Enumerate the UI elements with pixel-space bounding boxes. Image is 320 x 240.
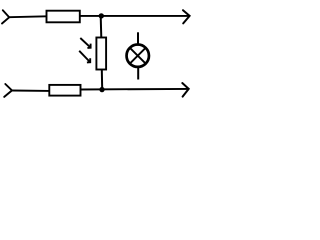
junction dot top: [99, 13, 104, 18]
wire top rail right segment: [80, 15, 189, 17]
lamp bottom lead: [137, 67, 139, 80]
resistor R1 (top): [47, 11, 80, 23]
lamp top lead: [137, 32, 139, 45]
lamp X diagonal 1: [130, 48, 145, 63]
lamp X diagonal 2: [130, 48, 145, 63]
lamp L1 circle: [127, 45, 149, 67]
input arrowhead top-left: [2, 10, 9, 23]
wire bottom rail left segment: [12, 90, 49, 92]
output arrowhead bottom-right: [182, 83, 188, 97]
resistor R2 (bottom): [49, 85, 80, 96]
light arrow 1: [80, 38, 90, 48]
wire vertical branch upper segment: [100, 16, 103, 38]
light arrow 2: [79, 51, 90, 63]
wire top rail left segment: [9, 15, 46, 18]
wire bottom rail right segment: [81, 88, 189, 91]
junction dot bottom: [99, 87, 104, 92]
input arrowhead bottom-left: [4, 84, 12, 97]
wire vertical branch lower segment: [101, 70, 103, 90]
photoresistor LDR body: [96, 38, 106, 70]
output arrowhead top-right: [183, 10, 190, 23]
